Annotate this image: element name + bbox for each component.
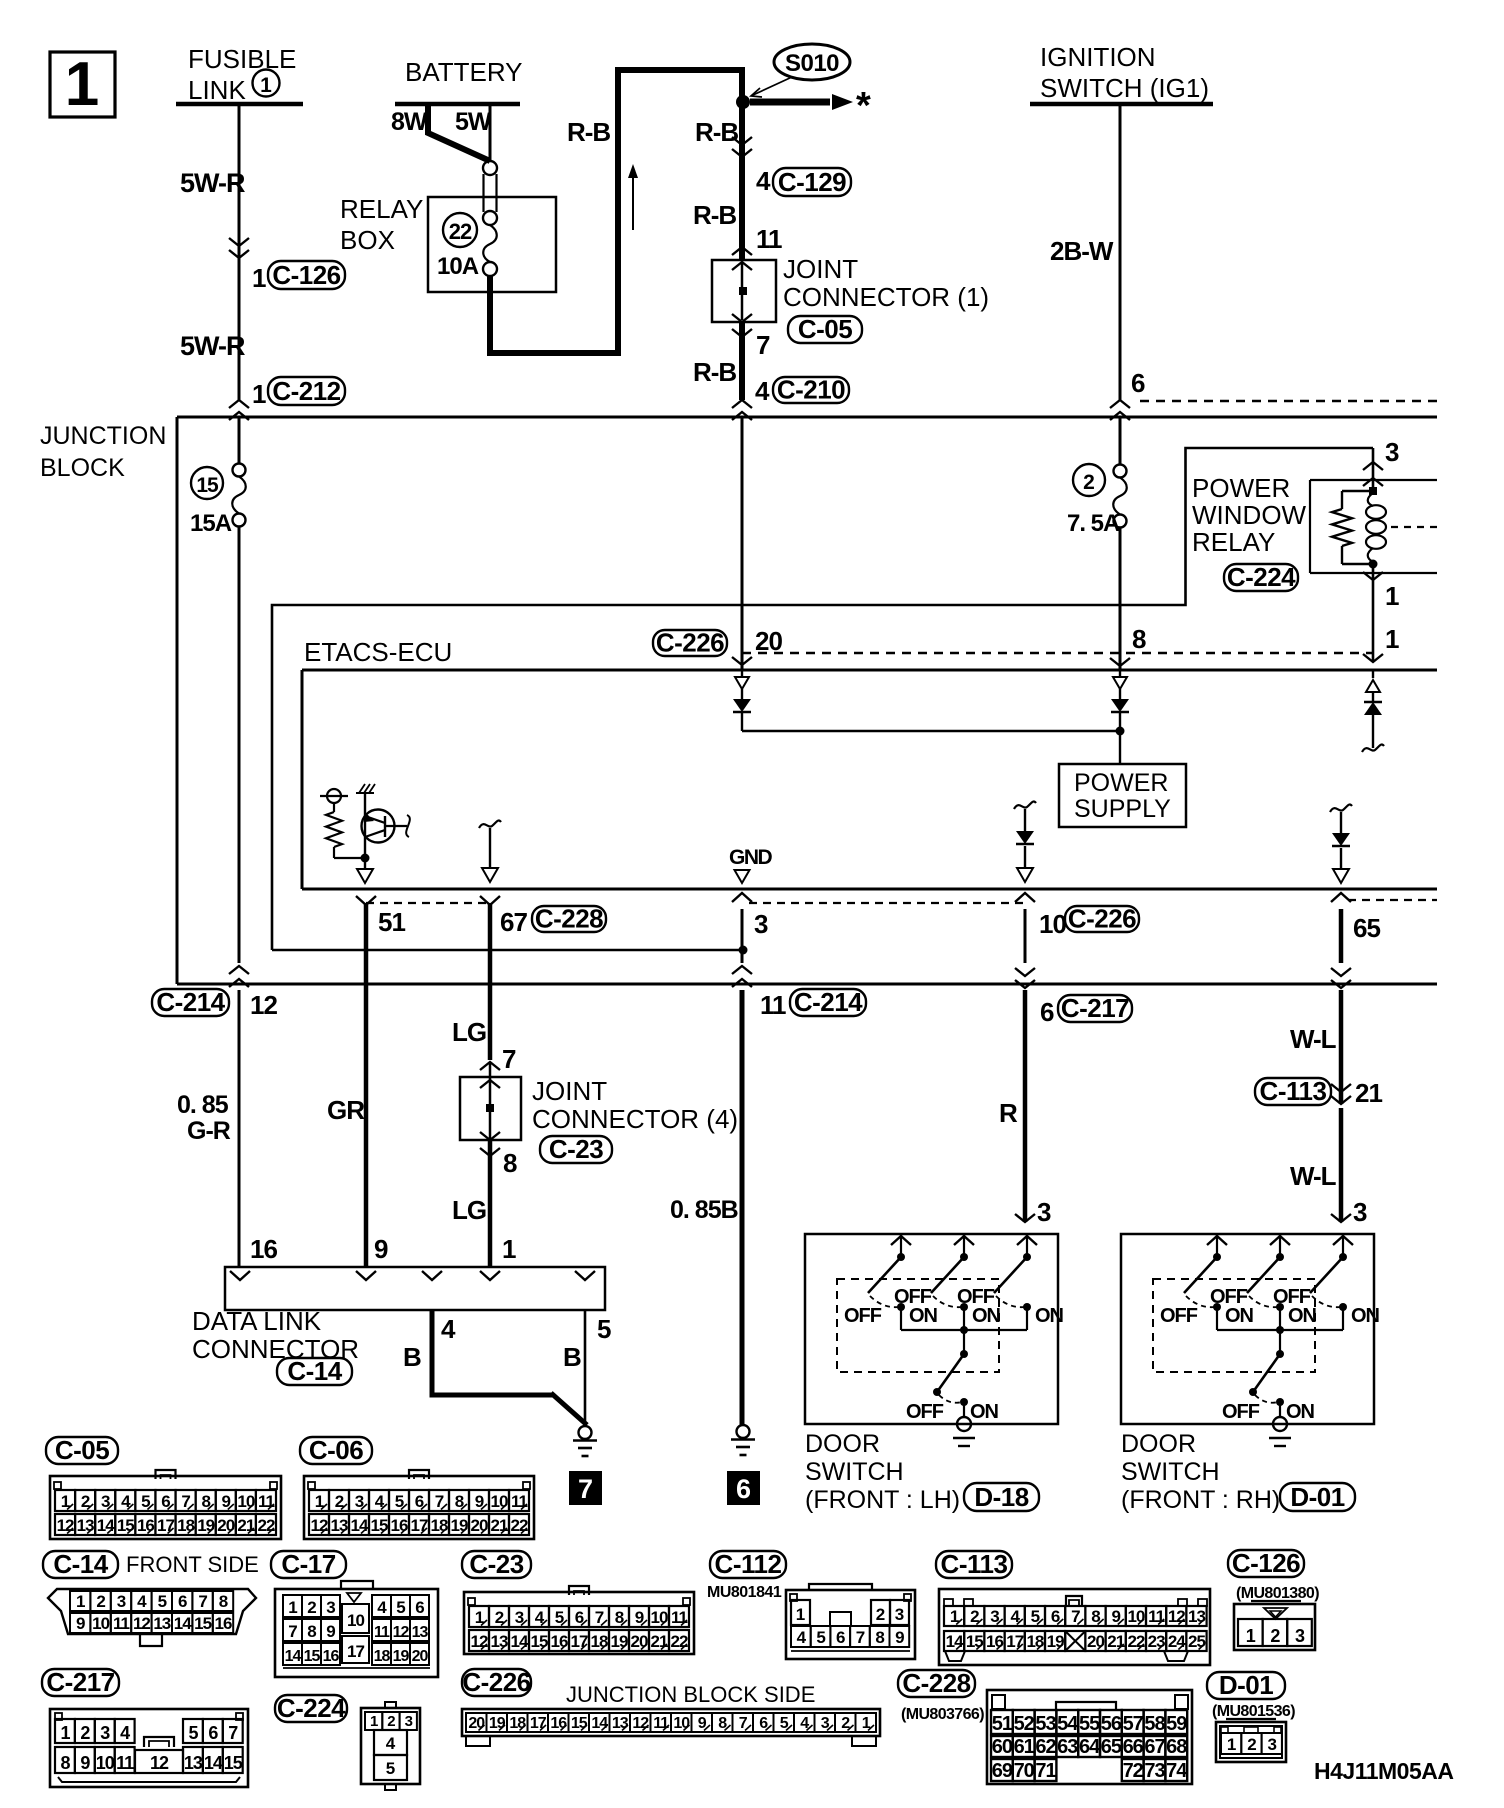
junction block outline (177, 416, 1437, 419)
connector C-06 pinout (304, 1476, 534, 1539)
svg-text:10: 10 (92, 1614, 109, 1633)
connector label C-226 and pin 20 (653, 630, 727, 656)
svg-text:15: 15 (531, 1632, 548, 1651)
transistor base line (364, 793, 366, 858)
connector C-126 pinout (1234, 1604, 1315, 1650)
connector label C-17 pinout (271, 1551, 346, 1578)
svg-text:54: 54 (1057, 1713, 1079, 1735)
connector label C-05 pinout (46, 1437, 118, 1464)
battery bus bar (395, 102, 520, 107)
relay drive diode (1364, 702, 1382, 715)
connector C-23 pinout (464, 1592, 694, 1654)
svg-text:11: 11 (756, 224, 782, 254)
svg-text:SUPPLY: SUPPLY (1074, 795, 1171, 823)
door switch LH dashed enclosure (837, 1279, 999, 1372)
joint connector (1) box (712, 260, 776, 322)
svg-text:15: 15 (304, 1648, 321, 1665)
svg-text:D-01: D-01 (1290, 1482, 1344, 1512)
door switch RH contacts (1207, 1236, 1227, 1245)
svg-text:1: 1 (1385, 581, 1399, 611)
svg-text:17: 17 (347, 1642, 364, 1661)
svg-text:B: B (403, 1342, 422, 1372)
relay pin chevrons (1363, 462, 1383, 470)
svg-text:4: 4 (756, 166, 771, 196)
svg-text:2: 2 (387, 1713, 395, 1730)
svg-text:G-R: G-R (187, 1117, 231, 1145)
svg-text:RELAY: RELAY (1192, 527, 1275, 557)
transistor Q1 (362, 810, 395, 843)
svg-text:1: 1 (1246, 1626, 1256, 1646)
svg-text:14: 14 (946, 1632, 964, 1651)
svg-text:4: 4 (386, 1734, 396, 1753)
svg-text:6: 6 (1040, 997, 1054, 1027)
wire LG from pin67 (488, 903, 493, 1060)
svg-text:11: 11 (760, 990, 786, 1020)
svg-text:14: 14 (591, 1715, 608, 1732)
pin20 diode (733, 699, 751, 712)
svg-text:6: 6 (736, 1474, 751, 1504)
splice S010 balloon (774, 44, 850, 80)
wire W-L lower part (1339, 1108, 1344, 1222)
connector chevrons C-214 pin11 (732, 966, 752, 974)
connector C-113 and pin 21 (1255, 1078, 1331, 1105)
svg-text:C-217: C-217 (46, 1667, 114, 1697)
svg-text:C-210: C-210 (777, 374, 845, 404)
svg-text:18: 18 (509, 1715, 526, 1732)
svg-text:D-18: D-18 (974, 1482, 1028, 1512)
svg-text:ON: ON (972, 1305, 1001, 1327)
svg-text:8W: 8W (391, 108, 428, 136)
svg-text:11: 11 (653, 1715, 669, 1732)
wire GR from pin51 (364, 903, 369, 1267)
joint connector (4) chevrons bottom (480, 1132, 500, 1140)
svg-text:13: 13 (184, 1753, 203, 1773)
svg-text:10: 10 (1127, 1607, 1144, 1626)
svg-text:1: 1 (252, 263, 266, 293)
svg-text:58: 58 (1144, 1713, 1165, 1735)
svg-text:22: 22 (449, 219, 472, 244)
svg-text:74: 74 (1166, 1760, 1188, 1782)
svg-text:ON: ON (1225, 1305, 1254, 1327)
svg-text:C-226: C-226 (462, 1667, 530, 1697)
pin65 triangle (1333, 869, 1349, 883)
svg-text:6: 6 (836, 1628, 845, 1647)
svg-text:3: 3 (326, 1598, 335, 1617)
door sw LH diode (1016, 831, 1034, 844)
pin10 chevron (1015, 893, 1035, 902)
chevron pin20 into ECU (732, 657, 752, 665)
svg-text:19: 19 (451, 1516, 468, 1535)
svg-text:25: 25 (1188, 1632, 1205, 1651)
svg-text:ON: ON (970, 1401, 999, 1423)
flow direction arrow (632, 175, 634, 230)
svg-text:OFF: OFF (1160, 1305, 1198, 1327)
svg-text:71: 71 (1035, 1760, 1056, 1782)
svg-text:67: 67 (500, 907, 527, 937)
svg-text:19: 19 (393, 1648, 410, 1665)
connector chevrons C-129 (732, 149, 752, 157)
svg-text:S010: S010 (785, 50, 839, 77)
svg-text:65: 65 (1101, 1736, 1122, 1758)
wire ignition to fuse 2 (1119, 417, 1122, 465)
chevron pin8 into ECU (1110, 658, 1130, 666)
svg-text:10: 10 (491, 1492, 508, 1511)
svg-text:7: 7 (228, 1723, 238, 1743)
dashed junction boundary C-226 (742, 652, 1373, 654)
wire 2B-W (1119, 104, 1122, 400)
svg-text:6: 6 (178, 1592, 187, 1611)
svg-text:C-228: C-228 (902, 1668, 970, 1698)
connector chevrons C-113 (1331, 1096, 1351, 1104)
pin20 input triangle (741, 670, 743, 677)
svg-text:FUSIBLE: FUSIBLE (188, 44, 296, 74)
joint connector (1) chevrons bottom (732, 314, 752, 322)
door switch RH box (1121, 1234, 1374, 1424)
svg-text:0. 85: 0. 85 (177, 1091, 229, 1119)
svg-text:2: 2 (96, 1592, 105, 1611)
svg-text:12: 12 (57, 1516, 74, 1535)
relay armature dashed link (1391, 526, 1437, 528)
pin51 output wire (364, 858, 366, 869)
relay coil bottom splice dot (1369, 560, 1378, 569)
svg-text:22: 22 (257, 1516, 274, 1535)
svg-text:9: 9 (374, 1234, 388, 1264)
svg-text:13: 13 (412, 1624, 429, 1641)
svg-text:12: 12 (471, 1632, 488, 1651)
svg-text:17: 17 (1006, 1632, 1023, 1651)
svg-text:1: 1 (65, 50, 99, 119)
svg-text:CONNECTOR (4): CONNECTOR (4) (532, 1104, 738, 1134)
relay wire pin3 to coil (1372, 448, 1375, 491)
connector C-05 pinout (50, 1476, 281, 1539)
svg-text:C-228: C-228 (535, 903, 603, 933)
svg-text:LG: LG (452, 1195, 486, 1225)
svg-text:4: 4 (120, 1723, 130, 1743)
wire B right (584, 1310, 587, 1427)
connector C-228 pinout (987, 1690, 1192, 1784)
svg-text:C-113: C-113 (941, 1549, 1008, 1579)
svg-text:67: 67 (1144, 1736, 1165, 1758)
svg-text:3: 3 (100, 1723, 110, 1743)
GND pin triangle (735, 870, 750, 883)
sensor circle (327, 789, 341, 803)
svg-text:(MU801380): (MU801380) (1236, 1585, 1319, 1602)
svg-text:1: 1 (60, 1723, 70, 1743)
data link connector box (225, 1267, 605, 1310)
svg-text:21: 21 (491, 1516, 508, 1535)
joint connector (1) splice square (739, 287, 747, 295)
svg-text:16: 16 (250, 1234, 277, 1264)
svg-text:14: 14 (285, 1648, 302, 1665)
svg-text:8: 8 (1132, 624, 1146, 654)
svg-text:2: 2 (1083, 471, 1095, 494)
svg-text:16: 16 (215, 1614, 232, 1633)
page marker 6 (727, 1471, 760, 1505)
svg-text:5: 5 (386, 1759, 395, 1778)
svg-text:64: 64 (1079, 1736, 1101, 1758)
pin3 chevron (732, 893, 752, 902)
dashed link 65 right (1348, 899, 1437, 901)
svg-text:18: 18 (177, 1516, 194, 1535)
svg-text:17: 17 (571, 1632, 588, 1651)
svg-text:8: 8 (307, 1622, 316, 1641)
chevron into joint connector 4 (480, 1062, 500, 1070)
page number box 1 (50, 52, 115, 117)
svg-text:20: 20 (217, 1516, 234, 1535)
svg-text:C-212: C-212 (272, 376, 340, 406)
svg-text:57: 57 (1123, 1713, 1144, 1735)
svg-text:72: 72 (1123, 1760, 1144, 1782)
fuse 2 element (1114, 465, 1127, 478)
svg-text:19: 19 (489, 1715, 506, 1732)
wire from fuse 15 down (238, 527, 241, 964)
fuse 15 element (233, 464, 246, 477)
svg-text:BLOCK: BLOCK (40, 454, 125, 482)
door switch LH ground pin (957, 1417, 971, 1431)
svg-text:59: 59 (1166, 1713, 1187, 1735)
dashed link 51-67 (366, 902, 490, 904)
svg-text:22: 22 (671, 1632, 688, 1651)
connector label D-01 pinout (1207, 1672, 1285, 1699)
svg-text:C-126: C-126 (272, 260, 340, 290)
DLC ground (579, 1426, 592, 1439)
svg-text:13: 13 (331, 1516, 348, 1535)
fuse 15 circled number (191, 467, 223, 499)
connector label C-14 pinout (43, 1551, 118, 1578)
svg-text:C-23: C-23 (469, 1549, 523, 1579)
connector chevrons C-126 (229, 250, 249, 258)
svg-text:8: 8 (875, 1628, 884, 1647)
wire pin8 to power supply (1119, 712, 1121, 764)
relay splice square (1369, 487, 1377, 495)
connector label C-06 pinout (300, 1437, 372, 1464)
connector C-217 pinout (50, 1709, 248, 1787)
svg-text:15: 15 (117, 1516, 134, 1535)
svg-text:C-217: C-217 (1061, 993, 1129, 1023)
svg-text:21: 21 (1355, 1078, 1382, 1108)
svg-text:3: 3 (754, 909, 768, 939)
svg-text:16: 16 (391, 1516, 408, 1535)
dashed junction boundary top right (1140, 400, 1437, 402)
svg-text:C-14: C-14 (287, 1356, 342, 1386)
pin65 chevron (1331, 893, 1351, 902)
svg-text:3: 3 (1295, 1626, 1305, 1646)
svg-text:(FRONT : RH): (FRONT : RH) (1121, 1486, 1280, 1514)
pin67 triangle (482, 868, 498, 882)
svg-text:11: 11 (116, 1753, 134, 1773)
svg-text:6: 6 (1131, 368, 1145, 398)
svg-text:2: 2 (876, 1605, 885, 1624)
svg-text:1: 1 (796, 1605, 805, 1624)
svg-text:0. 85B: 0. 85B (670, 1196, 738, 1224)
svg-text:WINDOW: WINDOW (1192, 500, 1307, 530)
svg-text:19: 19 (1047, 1632, 1064, 1651)
supply rail splice dot (1116, 727, 1125, 736)
svg-text:15: 15 (194, 1614, 211, 1633)
svg-text:3: 3 (405, 1713, 413, 1730)
svg-text:21: 21 (237, 1516, 254, 1535)
svg-text:15: 15 (224, 1753, 243, 1773)
connector label C-228 pinout (898, 1670, 975, 1697)
connector chevrons C-210 (732, 400, 752, 408)
pin67 chevron (480, 896, 500, 905)
svg-text:2: 2 (80, 1723, 90, 1743)
svg-text:10: 10 (237, 1492, 254, 1511)
relay drive output triangle (1366, 680, 1380, 692)
svg-text:16: 16 (550, 1715, 567, 1732)
wire 0.85B upper (741, 909, 744, 963)
door sw LH input squiggle (1014, 802, 1036, 809)
wire R-B inside junction block (741, 417, 744, 670)
door switch RH dashed enclosure (1153, 1279, 1315, 1372)
wire B left thick (432, 1310, 553, 1395)
wire 5W-R upper segment (238, 104, 241, 400)
svg-text:DOOR: DOOR (1121, 1430, 1196, 1458)
svg-text:4: 4 (755, 376, 770, 406)
transistor base node dot (361, 854, 370, 863)
svg-text:20: 20 (468, 1715, 485, 1732)
svg-text:20: 20 (471, 1516, 488, 1535)
connector label C-05 (joint) (788, 316, 862, 343)
connector label D-18 (964, 1483, 1039, 1511)
svg-text:SWITCH (IG1): SWITCH (IG1) (1040, 73, 1209, 103)
svg-text:JUNCTION BLOCK SIDE: JUNCTION BLOCK SIDE (566, 1682, 815, 1707)
connector label C-217 pinout (42, 1669, 119, 1696)
svg-text:C-113: C-113 (1260, 1076, 1327, 1106)
connector C-214 and pin 12 (152, 989, 229, 1016)
svg-text:1: 1 (260, 74, 272, 97)
svg-text:19: 19 (611, 1632, 628, 1651)
svg-text:56: 56 (1101, 1713, 1122, 1735)
connector label C-126 pinout (1228, 1550, 1304, 1577)
svg-text:11: 11 (671, 1608, 688, 1627)
svg-text:51: 51 (992, 1713, 1013, 1735)
connector chevrons C-226 pin6(down) (1015, 980, 1035, 988)
pin8 input triangle (1119, 670, 1121, 677)
svg-text:17: 17 (411, 1516, 428, 1535)
svg-text:1: 1 (252, 379, 266, 409)
relay drive internal wire (1372, 715, 1374, 748)
svg-text:18: 18 (374, 1648, 391, 1665)
svg-text:22: 22 (511, 1516, 528, 1535)
svg-text:R-B: R-B (567, 117, 610, 147)
wire R upper (1024, 909, 1027, 963)
connector label C-112 pinout (710, 1551, 786, 1578)
connector label C-226 pinout (462, 1669, 531, 1696)
svg-text:3: 3 (1037, 1197, 1051, 1227)
svg-text:C-17: C-17 (281, 1549, 335, 1579)
svg-text:C-06: C-06 (309, 1435, 363, 1465)
svg-text:C-05: C-05 (798, 314, 852, 344)
svg-text:6: 6 (415, 1598, 424, 1617)
svg-text:ON: ON (1351, 1305, 1380, 1327)
connector label C-23 pinout (462, 1551, 531, 1578)
door sw RH diode (1332, 833, 1350, 846)
joint connector (4) box (460, 1077, 521, 1140)
svg-text:12: 12 (632, 1715, 649, 1732)
svg-text:3: 3 (1385, 437, 1399, 467)
svg-text:14: 14 (351, 1516, 369, 1535)
connector label D-01 (1280, 1483, 1355, 1511)
svg-text:MU801841: MU801841 (707, 1584, 782, 1601)
svg-text:51: 51 (378, 907, 405, 937)
svg-text:(FRONT : LH): (FRONT : LH) (805, 1486, 960, 1514)
svg-text:20: 20 (412, 1648, 429, 1665)
svg-text:20: 20 (631, 1632, 648, 1651)
power supply box (1059, 764, 1186, 827)
svg-text:CONNECTOR (1): CONNECTOR (1) (783, 282, 989, 312)
svg-text:1: 1 (1227, 1735, 1236, 1754)
svg-text:62: 62 (1035, 1736, 1056, 1758)
wire W-L upper part (1339, 990, 1344, 1104)
connector C-224 pinout (361, 1708, 420, 1784)
ignition bus bar (1030, 102, 1213, 107)
svg-text:17: 17 (530, 1715, 547, 1732)
svg-text:10: 10 (1039, 909, 1066, 939)
svg-text:OFF: OFF (1222, 1401, 1260, 1423)
svg-text:12: 12 (133, 1614, 150, 1633)
svg-text:21: 21 (1107, 1632, 1124, 1651)
svg-text:R-B: R-B (695, 117, 738, 147)
svg-text:C-226: C-226 (1068, 903, 1136, 933)
door sw RH wire to pin (1340, 848, 1342, 869)
pin51 chevron (356, 896, 376, 905)
svg-text:52: 52 (1014, 1713, 1035, 1735)
splice dot pin3 net (739, 946, 748, 955)
connector chevrons ignition to junction block (1110, 400, 1130, 408)
connector chevrons C-212 (229, 400, 249, 408)
relay pin 1 chevron (1363, 572, 1383, 580)
svg-text:16: 16 (137, 1516, 154, 1535)
svg-text:7: 7 (856, 1628, 865, 1647)
battery 5W wire (489, 104, 492, 162)
svg-text:16: 16 (986, 1632, 1003, 1651)
svg-text:24: 24 (1168, 1632, 1186, 1651)
door switch LH box (805, 1234, 1058, 1424)
page marker 7 (569, 1471, 602, 1505)
wire 0.85 G-R (238, 990, 241, 1267)
svg-text:ETACS-ECU: ETACS-ECU (304, 637, 452, 667)
pull-up resistor (333, 803, 335, 812)
fusible link cartridge (483, 161, 497, 175)
connector label C-224 (1224, 564, 1298, 591)
DLC pin chevrons (230, 1271, 250, 1280)
ETACS-ECU box (302, 669, 1437, 672)
svg-text:10: 10 (673, 1715, 690, 1732)
svg-text:63: 63 (1057, 1736, 1078, 1758)
pin8 diode (1111, 699, 1129, 712)
svg-text:SWITCH: SWITCH (1121, 1458, 1220, 1486)
pin67 wire (489, 828, 491, 868)
svg-text:OFF: OFF (906, 1401, 944, 1423)
svg-text:70: 70 (1014, 1760, 1035, 1782)
svg-text:6: 6 (208, 1723, 218, 1743)
svg-text:SWITCH: SWITCH (805, 1458, 904, 1486)
svg-text:1: 1 (76, 1592, 85, 1611)
svg-text:11: 11 (258, 1492, 275, 1511)
connector label C-23 (joint) (540, 1136, 612, 1163)
connector C-112 pinout (786, 1590, 915, 1659)
svg-text:ON: ON (1035, 1305, 1064, 1327)
svg-text:C-214: C-214 (156, 987, 225, 1017)
transistor collector squiggle (406, 815, 410, 837)
svg-text:11: 11 (511, 1492, 528, 1511)
wire from junction top to fuse 15 (238, 417, 241, 464)
svg-text:C-126: C-126 (1232, 1548, 1300, 1578)
svg-text:10: 10 (347, 1611, 364, 1630)
wire LG lower (488, 1140, 493, 1267)
svg-text:C-14: C-14 (53, 1549, 108, 1579)
